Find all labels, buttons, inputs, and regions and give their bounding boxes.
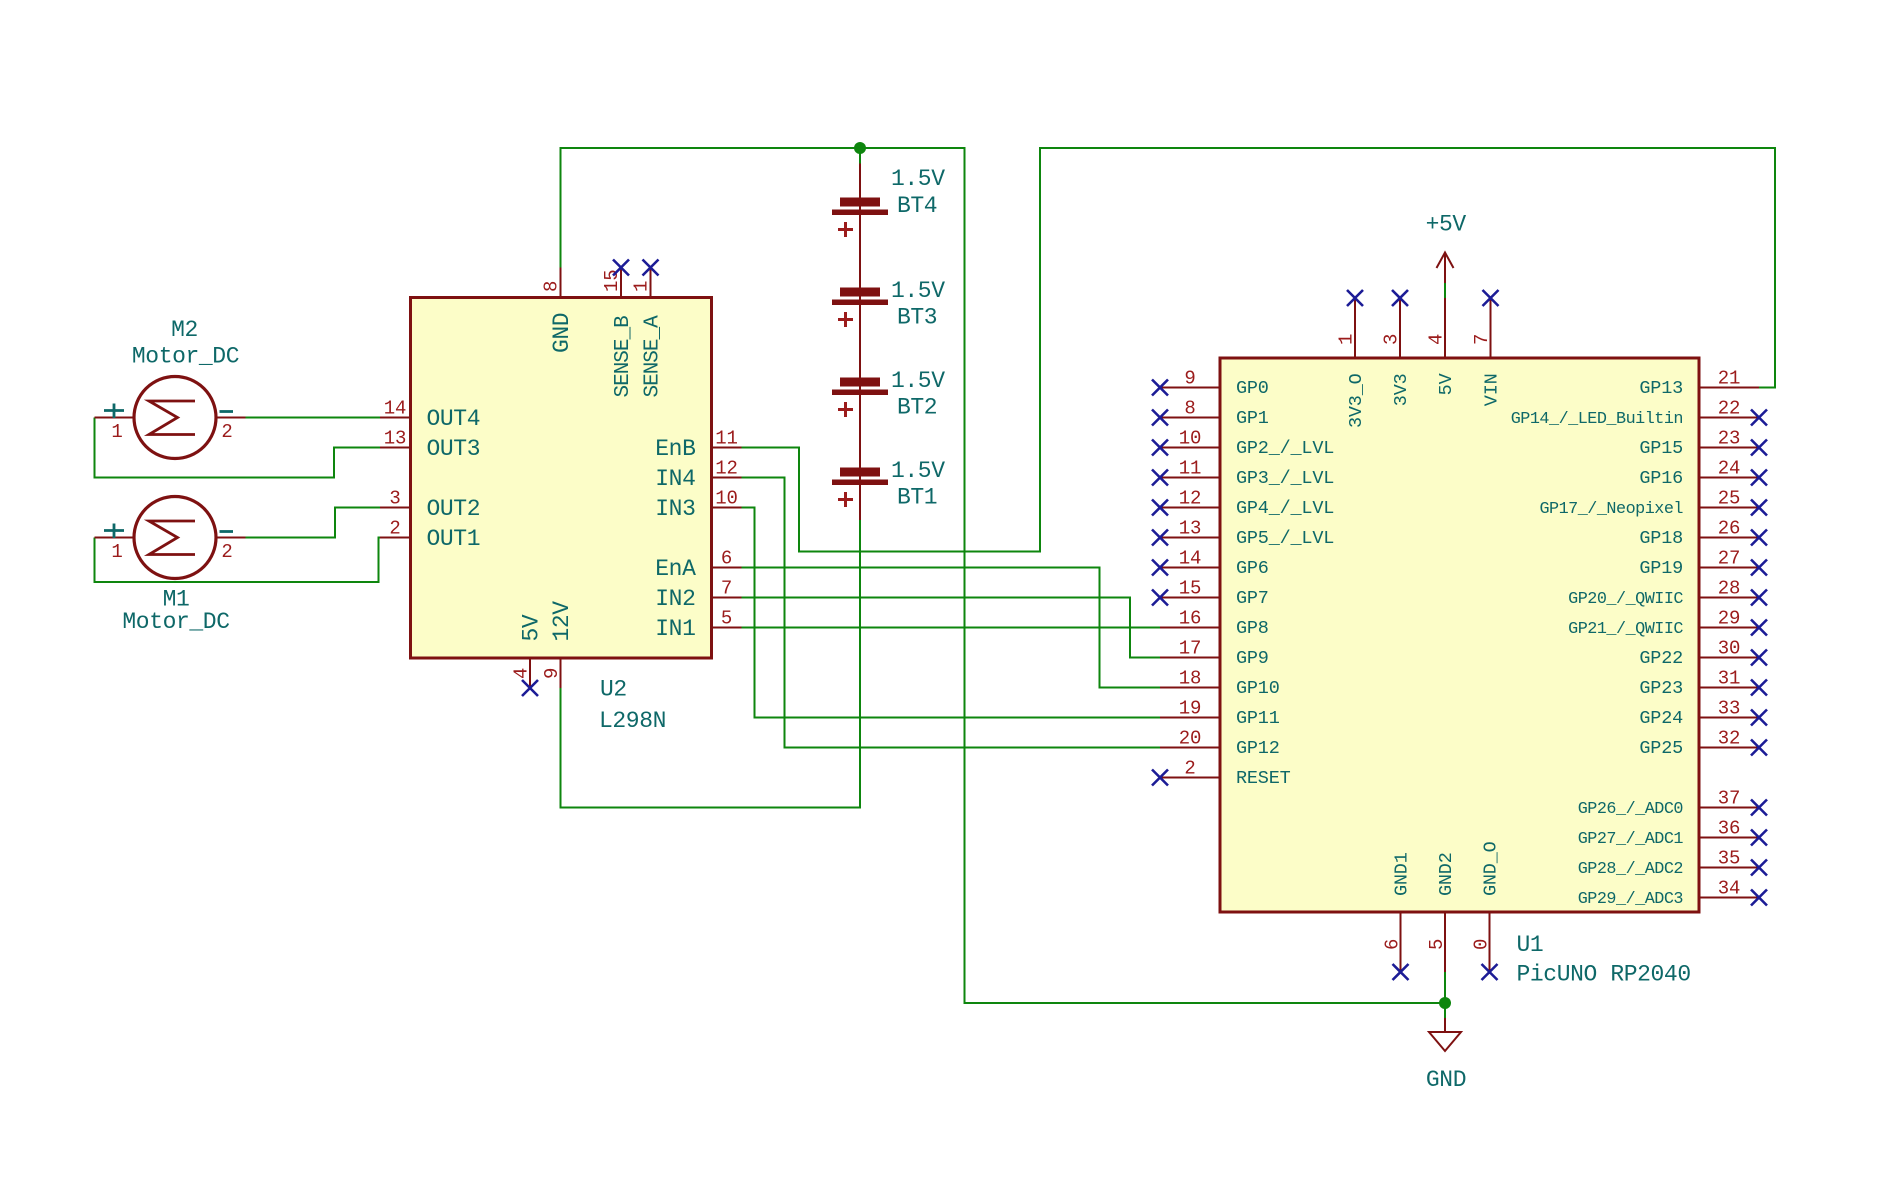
battery BT3 (832, 288, 888, 328)
svg-text:6: 6 (721, 548, 732, 570)
U1 pin 14 GP6 (1160, 548, 1269, 579)
U1 pin 27 GP19 (1639, 548, 1759, 579)
svg-text:OUT4: OUT4 (427, 406, 481, 432)
svg-text:PicUNO RP2040: PicUNO RP2040 (1517, 962, 1691, 988)
svg-text:8: 8 (541, 281, 563, 292)
svg-text:27: 27 (1718, 548, 1740, 570)
svg-text:GP22: GP22 (1639, 648, 1683, 669)
wire EnA to GP10 (742, 568, 1161, 688)
svg-text:GP8: GP8 (1236, 618, 1269, 639)
svg-text:7: 7 (1471, 334, 1493, 345)
svg-text:GP12: GP12 (1236, 738, 1280, 759)
svg-text:GP2_/_LVL: GP2_/_LVL (1236, 438, 1334, 459)
op-amp U2 L298N body (411, 298, 712, 659)
wire M2 pin1 to U2 OUT3 (95, 418, 381, 478)
svg-text:1.5V: 1.5V (891, 368, 945, 394)
svg-text:GP26_/_ADC0: GP26_/_ADC0 (1578, 800, 1684, 819)
U1 pin 3 3V3 (top) (1381, 298, 1413, 406)
svg-text:12V: 12V (549, 601, 575, 642)
svg-text:14: 14 (384, 398, 406, 420)
svg-text:GP29_/_ADC3: GP29_/_ADC3 (1578, 890, 1683, 909)
svg-text:31: 31 (1718, 668, 1740, 690)
motor M2 sigma symbol (149, 401, 195, 435)
svg-text:3: 3 (389, 488, 400, 510)
svg-text:26: 26 (1718, 518, 1740, 540)
U1 pin 4 5V (top) (1426, 298, 1458, 395)
svg-text:GP25: GP25 (1639, 738, 1683, 759)
motor M1 sigma symbol (149, 521, 195, 555)
U2 pin 4 5V (bottom) (511, 614, 545, 688)
battery BT2 (832, 378, 888, 418)
U1 pin 15 GP7 (1160, 578, 1269, 609)
U1 pin 2 RESET (1160, 758, 1291, 789)
svg-text:BT3: BT3 (897, 305, 937, 331)
svg-text:BT1: BT1 (897, 485, 937, 511)
svg-text:0: 0 (1471, 939, 1493, 950)
wire IN1 to GP8 (742, 627, 1161, 629)
svg-text:2: 2 (1184, 758, 1195, 780)
svg-text:GP0: GP0 (1236, 378, 1269, 399)
svg-text:14: 14 (1179, 548, 1201, 570)
svg-text:12: 12 (715, 458, 737, 480)
svg-text:9: 9 (541, 668, 563, 679)
svg-text:22: 22 (1718, 398, 1740, 420)
svg-text:10: 10 (715, 488, 737, 510)
U1 pin 36 GP27_/_ADC1 (1578, 818, 1759, 849)
U2 pin 7 IN2 (655, 578, 741, 612)
svg-text:1: 1 (1336, 334, 1358, 345)
svg-text:GP11: GP11 (1236, 708, 1280, 729)
svg-text:11: 11 (715, 428, 737, 450)
svg-text:33: 33 (1718, 698, 1740, 720)
svg-text:IN4: IN4 (655, 466, 695, 492)
IC U1 PicUNO RP2040 body (1220, 358, 1699, 912)
no-connect X U1 pin 0 (1482, 964, 1498, 980)
svg-text:IN3: IN3 (655, 496, 695, 522)
wire IN3 to GP11 (742, 508, 1161, 718)
no-connect X U1 pin 27 (1751, 560, 1767, 576)
svg-text:13: 13 (384, 428, 406, 450)
svg-text:GP14_/_LED_Builtin: GP14_/_LED_Builtin (1511, 410, 1683, 429)
svg-text:2: 2 (389, 518, 400, 540)
svg-text:Motor_DC: Motor_DC (122, 609, 229, 635)
svg-text:GND: GND (549, 313, 575, 353)
svg-text:GND_O: GND_O (1481, 841, 1502, 896)
svg-text:GP6: GP6 (1236, 558, 1269, 579)
U1 pin 33 GP24 (1639, 698, 1759, 729)
no-connect X U1 pin 9 (1152, 380, 1168, 396)
svg-text:OUT3: OUT3 (427, 436, 481, 462)
no-connect X U1 pin 30 (1751, 650, 1767, 666)
U2 pin 6 EnA (655, 548, 741, 582)
U2 pin 11 EnB (655, 428, 741, 462)
U1 pin 13 GP5_/_LVL (1160, 518, 1334, 549)
svg-text:20: 20 (1179, 728, 1201, 750)
svg-text:30: 30 (1718, 638, 1740, 660)
no-connect X U2 pin 1 (643, 260, 659, 276)
no-connect X U1 pin 14 (1152, 560, 1168, 576)
svg-text:GND1: GND1 (1392, 852, 1413, 896)
U1 pin 23 GP15 (1639, 428, 1759, 459)
svg-text:11: 11 (1179, 458, 1201, 480)
svg-text:6: 6 (1382, 939, 1404, 950)
no-connect X U1 pin 23 (1751, 440, 1767, 456)
motor M2 pin 2 (216, 412, 246, 444)
svg-text:21: 21 (1718, 368, 1740, 390)
U2 pin 14 OUT4 (380, 398, 480, 432)
svg-text:13: 13 (1179, 518, 1201, 540)
no-connect X U1 top pin 3 (1392, 290, 1408, 306)
svg-text:GP9: GP9 (1236, 648, 1269, 669)
U1 pin 25 GP17_/_Neopixel (1539, 488, 1759, 519)
power symbol +5V (1437, 253, 1454, 284)
svg-text:M2: M2 (171, 317, 198, 343)
no-connect X U2 pin 15 (613, 260, 629, 276)
U1 pin 1 3V3_O (top) (1336, 298, 1368, 428)
U1 pin 31 GP23 (1639, 668, 1759, 699)
svg-text:GP16: GP16 (1639, 468, 1683, 489)
svg-text:SENSE_B: SENSE_B (612, 316, 635, 398)
no-connect X U1 pin 28 (1751, 590, 1767, 606)
wire IN4 to GP12 (742, 478, 1161, 748)
no-connect X U1 pin 31 (1751, 680, 1767, 696)
svg-text:OUT2: OUT2 (427, 496, 481, 522)
svg-text:1: 1 (111, 421, 122, 443)
U2 pin 9 12V (bottom) (541, 601, 575, 688)
svg-text:RESET: RESET (1236, 768, 1291, 789)
no-connect X U1 pin 24 (1751, 470, 1767, 486)
svg-text:3: 3 (1381, 334, 1403, 345)
svg-text:OUT1: OUT1 (427, 526, 481, 552)
no-connect X U1 pin 12 (1152, 500, 1168, 516)
svg-text:GP3_/_LVL: GP3_/_LVL (1236, 468, 1334, 489)
svg-text:3V3: 3V3 (1391, 373, 1412, 406)
svg-text:GP20_/_QWIIC: GP20_/_QWIIC (1568, 590, 1683, 609)
U1 pin 10 GP2_/_LVL (1160, 428, 1334, 459)
no-connect X U1 top pin 1 (1347, 290, 1363, 306)
U1 pin 7 VIN (top) (1471, 298, 1503, 406)
U2 pin 8 GND (top) (541, 268, 576, 354)
svg-text:37: 37 (1718, 788, 1740, 810)
no-connect X U1 pin 33 (1751, 710, 1767, 726)
no-connect X U1 pin 32 (1751, 740, 1767, 756)
wire EnB to GP13 (742, 148, 1776, 552)
svg-text:VIN: VIN (1482, 373, 1503, 406)
no-connect X U1 pin 29 (1751, 620, 1767, 636)
svg-text:5: 5 (721, 608, 732, 630)
svg-text:EnA: EnA (655, 556, 696, 582)
svg-text:15: 15 (1179, 578, 1201, 600)
U2 pin 2 OUT1 (380, 518, 480, 552)
U1 pin 24 GP16 (1639, 458, 1759, 489)
svg-text:GP5_/_LVL: GP5_/_LVL (1236, 528, 1334, 549)
no-connect X U1 pin 36 (1751, 830, 1767, 846)
U1 pin 30 GP22 (1639, 638, 1759, 669)
svg-text:5V: 5V (1436, 373, 1457, 395)
no-connect X U1 pin 2 (1152, 770, 1168, 786)
svg-text:1: 1 (111, 541, 122, 563)
svg-text:BT2: BT2 (897, 395, 937, 421)
U1 pin 5 GND2 (bottom) (1426, 852, 1457, 972)
U1 pin 8 GP1 (1160, 398, 1269, 429)
U1 pin 29 GP21_/_QWIIC (1568, 608, 1759, 639)
svg-text:28: 28 (1718, 578, 1740, 600)
no-connect X U1 pin 6 (1393, 964, 1409, 980)
wire 12V net: U2 pin9 to battery BT1 bottom (561, 520, 861, 808)
U2 pin 12 IN4 (655, 458, 741, 492)
U1 pin 32 GP25 (1639, 728, 1759, 759)
U1 pin 9 GP0 (1160, 368, 1269, 399)
svg-text:GP28_/_ADC2: GP28_/_ADC2 (1578, 860, 1683, 879)
U1 pin 34 GP29_/_ADC3 (1578, 878, 1759, 909)
no-connect X U2 pin 4 (522, 680, 538, 696)
wire IN2 to GP9 (742, 598, 1161, 658)
svg-text:1.5V: 1.5V (891, 458, 945, 484)
motor M2 circle (134, 377, 216, 459)
svg-text:10: 10 (1179, 428, 1201, 450)
U1 pin 11 GP3_/_LVL (1160, 458, 1334, 489)
U2 pin 15 SENSE_B (top) (601, 268, 635, 398)
wire M1 pin1 to U2 OUT1 (95, 538, 381, 583)
svg-text:GP23: GP23 (1639, 678, 1683, 699)
battery BT1 (832, 468, 888, 508)
wire U1 GND2 to GND symbol (1444, 972, 1446, 1018)
U2 pin 5 IN1 (655, 608, 741, 642)
no-connect X U1 pin 13 (1152, 530, 1168, 546)
svg-text:IN2: IN2 (655, 586, 695, 612)
no-connect X U1 pin 34 (1751, 890, 1767, 906)
U2 pin 13 OUT3 (380, 428, 480, 462)
U1 pin 28 GP20_/_QWIIC (1568, 578, 1759, 609)
svg-text:GP10: GP10 (1236, 678, 1280, 699)
U1 pin 20 GP12 (1160, 728, 1280, 759)
battery BT4 (832, 198, 888, 238)
svg-text:L298N: L298N (599, 708, 666, 734)
svg-text:SENSE_A: SENSE_A (642, 315, 665, 398)
junction GND node (1439, 997, 1451, 1009)
U1 pin 19 GP11 (1160, 698, 1280, 729)
svg-text:+5V: +5V (1426, 212, 1467, 238)
U2 pin 3 OUT2 (380, 488, 480, 522)
wire battery BT4 top stub (859, 148, 861, 164)
svg-text:U2: U2 (600, 677, 627, 703)
U1 pin 6 GND1 (bottom) (1382, 852, 1413, 972)
svg-text:GP27_/_ADC1: GP27_/_ADC1 (1578, 830, 1684, 849)
svg-text:15: 15 (601, 270, 623, 292)
no-connect X U1 pin 11 (1152, 470, 1168, 486)
U1 pin 18 GP10 (1160, 668, 1280, 699)
no-connect X U1 pin 15 (1152, 590, 1168, 606)
svg-text:36: 36 (1718, 818, 1740, 840)
svg-text:GP7: GP7 (1236, 588, 1269, 609)
svg-text:4: 4 (511, 668, 533, 679)
svg-text:5V: 5V (519, 614, 545, 641)
wire GND net: U2 pin8 / battery top / U1 GND2 (561, 148, 1446, 1003)
svg-text:5: 5 (1426, 939, 1448, 950)
U2 pin 10 IN3 (655, 488, 741, 522)
svg-text:BT4: BT4 (897, 193, 937, 219)
U2 pin 1 SENSE_A (top) (631, 268, 665, 398)
svg-text:16: 16 (1179, 608, 1201, 630)
svg-text:Motor_DC: Motor_DC (132, 343, 239, 369)
no-connect X U1 top pin 7 (1483, 290, 1499, 306)
no-connect X U1 pin 26 (1751, 530, 1767, 546)
svg-text:35: 35 (1718, 848, 1740, 870)
svg-text:GP4_/_LVL: GP4_/_LVL (1236, 498, 1334, 519)
svg-text:GP17_/_Neopixel: GP17_/_Neopixel (1539, 500, 1683, 519)
ground symbol GND (1429, 1018, 1461, 1051)
motor M1 circle (134, 497, 216, 579)
no-connect X U1 pin 37 (1751, 800, 1767, 816)
wire U1 5V pin to +5V symbol (1444, 283, 1446, 298)
svg-text:2: 2 (221, 421, 232, 443)
wire M2 pin2 to U2 OUT4 (246, 417, 381, 419)
U1 pin 26 GP18 (1639, 518, 1759, 549)
no-connect X U1 pin 25 (1751, 500, 1767, 516)
svg-text:19: 19 (1179, 698, 1201, 720)
svg-text:GP24: GP24 (1639, 708, 1683, 729)
svg-text:GND: GND (1426, 1067, 1466, 1093)
svg-text:GP1: GP1 (1236, 408, 1269, 429)
svg-text:GP15: GP15 (1639, 438, 1683, 459)
no-connect X U1 pin 22 (1751, 410, 1767, 426)
no-connect X U1 pin 8 (1152, 410, 1168, 426)
wire M1 pin2 to U2 OUT2 (246, 508, 381, 538)
svg-text:GP13: GP13 (1639, 378, 1683, 399)
U1 pin 21 GP13 (1639, 368, 1759, 399)
no-connect X U1 pin 35 (1751, 860, 1767, 876)
U1 pin 16 GP8 (1160, 608, 1269, 639)
U1 pin 37 GP26_/_ADC0 (1578, 788, 1759, 819)
svg-text:12: 12 (1179, 488, 1201, 510)
svg-text:3V3_O: 3V3_O (1346, 373, 1367, 428)
U1 pin 17 GP9 (1160, 638, 1269, 669)
svg-text:32: 32 (1718, 728, 1740, 750)
svg-text:U1: U1 (1517, 932, 1544, 958)
U1 pin 35 GP28_/_ADC2 (1578, 848, 1759, 879)
battery chain center line (859, 164, 861, 521)
U1 pin 0 GND_O (bottom) (1471, 841, 1502, 972)
svg-text:4: 4 (1426, 334, 1448, 345)
svg-text:1: 1 (631, 281, 653, 292)
svg-text:GND2: GND2 (1436, 852, 1457, 896)
svg-text:2: 2 (221, 541, 232, 563)
svg-text:23: 23 (1718, 428, 1740, 450)
motor M1 pin 1 (95, 524, 135, 564)
svg-text:9: 9 (1184, 368, 1195, 390)
svg-text:GP21_/_QWIIC: GP21_/_QWIIC (1568, 620, 1683, 639)
U1 pin 22 GP14_/_LED_Builtin (1511, 398, 1759, 429)
svg-text:18: 18 (1179, 668, 1201, 690)
no-connect X U1 pin 10 (1152, 440, 1168, 456)
svg-text:GP18: GP18 (1639, 528, 1683, 549)
svg-text:1.5V: 1.5V (891, 278, 945, 304)
svg-text:25: 25 (1718, 488, 1740, 510)
svg-text:GP19: GP19 (1639, 558, 1683, 579)
svg-text:17: 17 (1179, 638, 1201, 660)
U1 pin 12 GP4_/_LVL (1160, 488, 1334, 519)
svg-text:29: 29 (1718, 608, 1740, 630)
svg-text:1.5V: 1.5V (891, 166, 945, 192)
motor M1 pin 2 (216, 532, 246, 564)
svg-text:EnB: EnB (655, 436, 695, 462)
svg-text:IN1: IN1 (655, 616, 695, 642)
svg-text:24: 24 (1718, 458, 1740, 480)
junction battery top (854, 142, 866, 154)
motor M2 pin 1 (95, 404, 135, 444)
svg-text:8: 8 (1184, 398, 1195, 420)
svg-text:34: 34 (1718, 878, 1740, 900)
svg-text:7: 7 (721, 578, 732, 600)
